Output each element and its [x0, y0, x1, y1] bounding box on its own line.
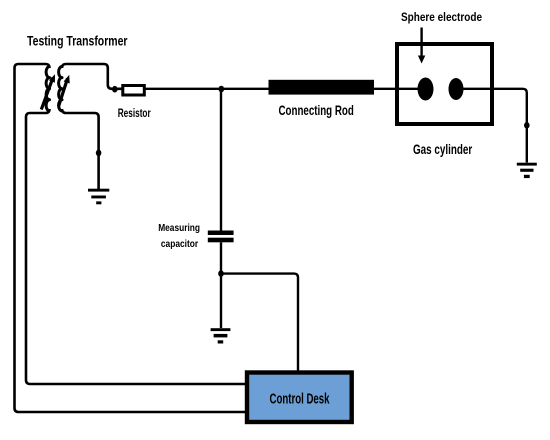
sphere electrode 1 [418, 78, 434, 101]
wire: secondary top to resistor node [62, 64, 122, 89]
svg-text:Connecting Rod: Connecting Rod [279, 103, 354, 118]
svg-text:Control Desk: Control Desk [270, 392, 330, 408]
junction node on right ground wire [524, 122, 530, 129]
wire: junction down to middle ground [220, 274, 222, 328]
svg-text:Testing Transformer: Testing Transformer [27, 33, 128, 48]
svg-text:Resistor: Resistor [118, 106, 151, 120]
variable arrow on primary winding [41, 74, 55, 109]
svg-text:Sphere electrode: Sphere electrode [401, 10, 482, 24]
wire: capacitor bottom plate down to junction [220, 242, 222, 273]
variable arrow on secondary winding [59, 75, 70, 107]
wire: capacitor branch from main line down to top plate [220, 89, 222, 231]
pointer arrow to sphere electrode [418, 28, 425, 64]
svg-text:Gas cylinder: Gas cylinder [413, 142, 473, 157]
transformer primary winding (left coil) [46, 67, 49, 111]
ground (transformer secondary) [88, 189, 109, 205]
sphere electrode 2 [449, 78, 464, 100]
resistor (rectangle) [123, 86, 145, 96]
junction node to measuring-capacitor branch [219, 86, 225, 93]
junction node below capacitor [218, 270, 224, 277]
wire: resistor to connecting rod [146, 88, 270, 90]
wire: secondary winding bottom down to left ground [62, 109, 99, 189]
Control Desk box [247, 373, 352, 423]
svg-text:Measuring: Measuring [158, 223, 200, 234]
wire: primary-side loop (top wire, left outer vertical, bottom run to Control Desk) [15, 64, 248, 412]
junction node on transformer ground wire [96, 150, 102, 157]
ground (measuring capacitor) [211, 328, 231, 343]
svg-text:capacitor: capacitor [161, 239, 198, 250]
measuring capacitor plates [208, 231, 234, 243]
connecting rod (solid bar) [269, 80, 375, 95]
wire: junction to Control Desk top [221, 274, 298, 372]
wire: sphere 2 out of box, down to right ground [457, 89, 527, 163]
wire: primary winding bottom to second vertical down to Control Desk [26, 109, 247, 384]
transformer secondary winding (right coil) [59, 67, 62, 111]
gas cylinder box [397, 44, 492, 124]
wire: rod into gas cylinder to sphere 1 [374, 88, 424, 90]
ground (right, below gas cylinder) [517, 163, 537, 178]
junction node at resistor input [112, 86, 118, 93]
